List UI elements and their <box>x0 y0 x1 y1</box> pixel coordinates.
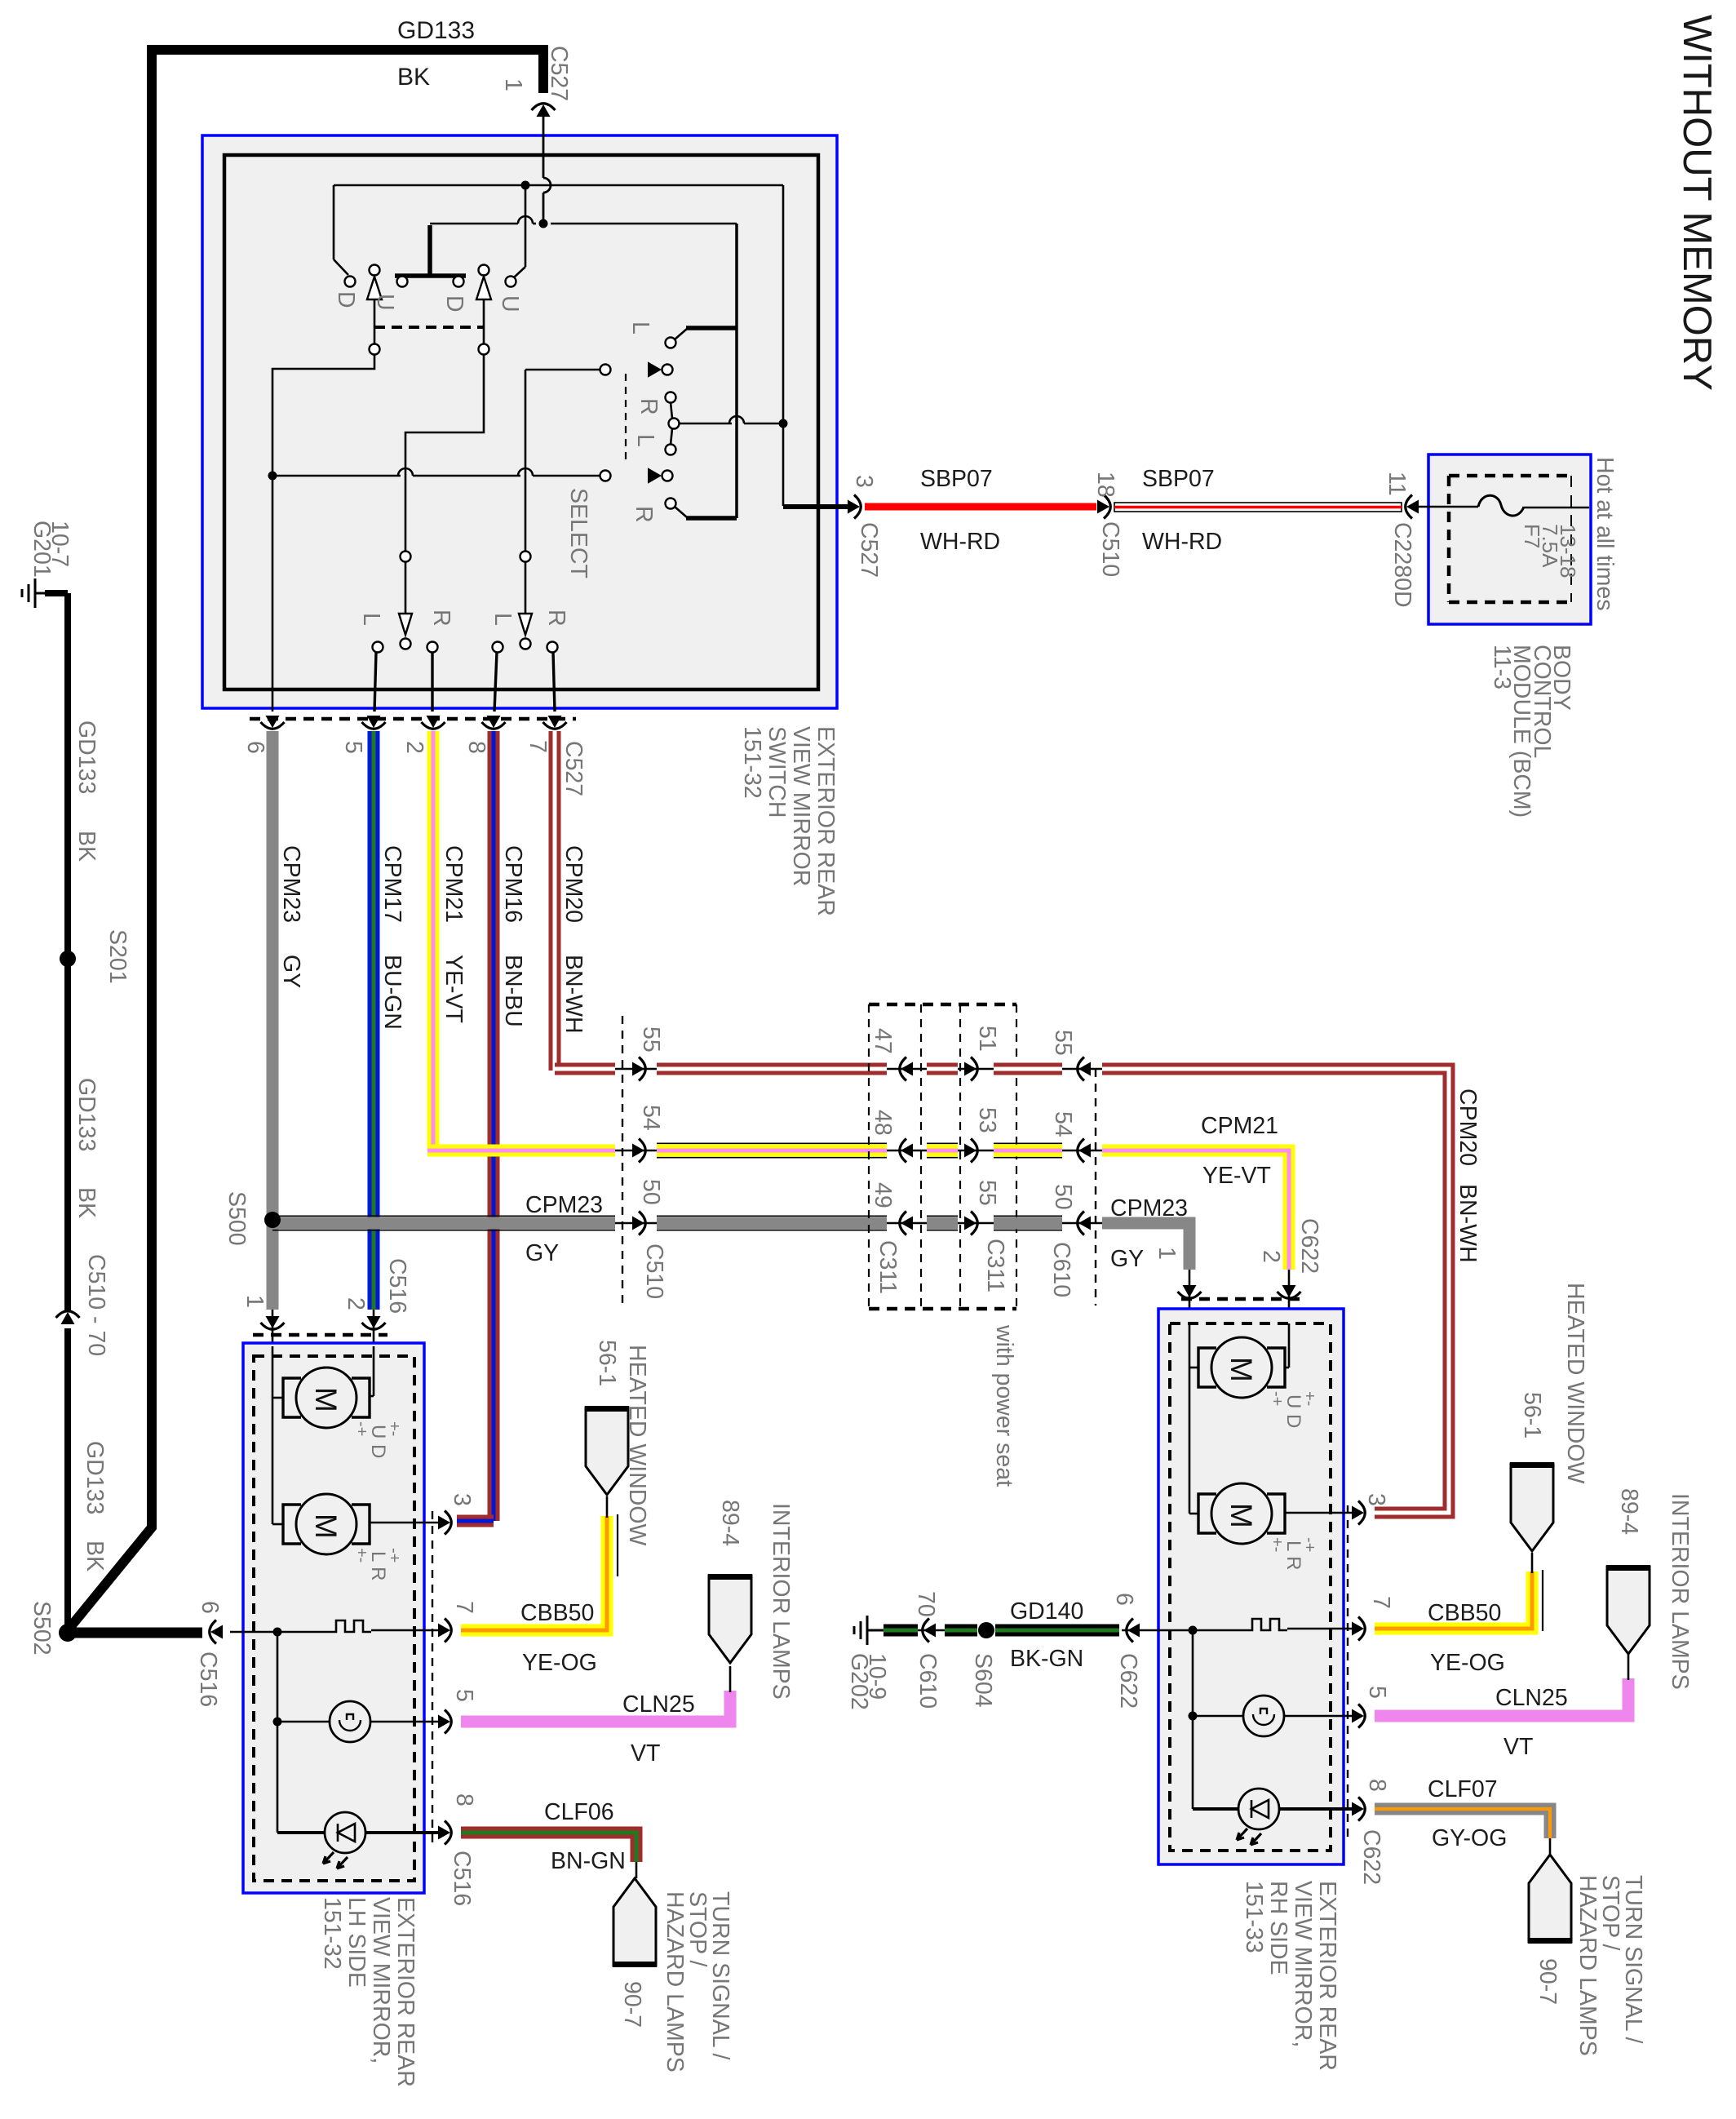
connector C510 pin 18 arrow <box>1097 495 1110 519</box>
label D2 <box>441 295 467 313</box>
label YE-OG RH <box>1430 1650 1505 1676</box>
label CPM23 horiz <box>525 1192 603 1218</box>
label SBP07 2 <box>1142 466 1215 492</box>
wire thick to pin3 C527 <box>783 504 852 509</box>
svg-text:L: L <box>632 434 658 447</box>
svg-text:7: 7 <box>525 740 551 753</box>
label C510 - 70 <box>83 1254 109 1356</box>
svg-text:HAZARD LAMPS: HAZARD LAMPS <box>662 1891 688 2072</box>
wire SBP07 WH-RD segment 2 (white-red) <box>1114 503 1402 512</box>
label INTERIOR LAMPS RH <box>1667 1493 1693 1690</box>
wire CBB50 YE-OG RH <box>1375 1553 1543 1631</box>
svg-text:CPM17: CPM17 <box>379 845 405 923</box>
svg-text:56-1: 56-1 <box>1519 1392 1545 1439</box>
label CBB50 RH <box>1428 1600 1501 1626</box>
wire into BCM <box>1414 507 1589 508</box>
svg-text:C622: C622 <box>1296 1218 1322 1274</box>
svg-text:CPM21: CPM21 <box>1201 1113 1278 1139</box>
svg-text:BU-GN: BU-GN <box>379 955 405 1030</box>
wire CPM20 BN-WH turn to row 55 <box>555 1063 615 1075</box>
label U <box>372 294 398 311</box>
svg-text:18: 18 <box>1092 472 1118 498</box>
svg-text:1: 1 <box>500 78 526 91</box>
label VT LH <box>631 1740 660 1767</box>
pin 8 label LH <box>451 1793 477 1806</box>
select rocker upper input <box>600 363 673 376</box>
mech link dashed <box>374 326 484 329</box>
switch U-D rocker thick bar <box>395 225 466 276</box>
label CBB50 LH <box>520 1600 594 1626</box>
svg-text:HAZARD LAMPS: HAZARD LAMPS <box>1574 1875 1601 2056</box>
label C622 pin6 <box>1115 1653 1141 1709</box>
wire CLN25 VT RH <box>1375 1654 1628 1716</box>
svg-text:1: 1 <box>1154 1247 1180 1260</box>
LH mirror title <box>319 1897 418 2087</box>
label TURN SIGNAL STOP HAZARD LH <box>662 1891 733 2072</box>
C527 pin 8 arrow <box>482 716 506 729</box>
switch bottom contact group 2 <box>519 552 532 649</box>
C527 pin 5 arrow <box>362 716 386 729</box>
row 50 arrow at C510 <box>615 1212 657 1235</box>
svg-text:with power seat: with power seat <box>991 1324 1017 1487</box>
label CPM21 vert <box>441 845 467 923</box>
svg-text:89-4: 89-4 <box>717 1500 743 1546</box>
label C516 left <box>195 1651 221 1707</box>
contact D2 <box>454 277 464 287</box>
label BN-WH vert <box>560 955 587 1034</box>
wire YE-VT row54 mid <box>657 1143 887 1157</box>
svg-text:YE-OG: YE-OG <box>1430 1650 1505 1676</box>
svg-text:CPM16: CPM16 <box>500 845 526 923</box>
RH heater to pin7 <box>1287 1628 1354 1630</box>
RH lamp <box>1193 1696 1354 1736</box>
label GY-OG RH <box>1432 1825 1507 1851</box>
box EXTERIOR REAR VIEW MIRROR LH <box>243 1343 424 1893</box>
contact R1 bottom <box>427 642 438 712</box>
label BN-GN LH <box>551 1848 626 1874</box>
svg-text:S604: S604 <box>970 1653 996 1708</box>
svg-text:5: 5 <box>340 741 366 754</box>
label 55 C510 <box>638 1026 664 1053</box>
LH heater to pin7 <box>371 1629 441 1632</box>
svg-text:151-32: 151-32 <box>319 1897 345 1970</box>
svg-text:RH SIDE: RH SIDE <box>1265 1881 1291 1975</box>
label C622 pin8 <box>1358 1829 1384 1885</box>
label GY vert <box>278 955 304 988</box>
contact mid-left <box>370 344 380 355</box>
label L select <box>627 321 653 335</box>
svg-text:C510: C510 <box>641 1243 667 1299</box>
label C527 right <box>856 522 882 578</box>
RH motor2 wire to pin 3 <box>1284 1512 1354 1514</box>
svg-text:BODY: BODY <box>1548 645 1574 711</box>
svg-text:EXTERIOR REAR: EXTERIOR REAR <box>1314 1881 1340 2071</box>
svg-text:CLN25: CLN25 <box>622 1691 695 1718</box>
label SELECT <box>565 488 591 579</box>
box EXTERIOR REAR VIEW MIRROR RH <box>1158 1309 1344 1864</box>
contact R2 bottom <box>547 642 558 712</box>
svg-text:R: R <box>428 610 454 627</box>
svg-text:CPM23: CPM23 <box>525 1192 603 1218</box>
LH pin7 arrow <box>438 1619 451 1642</box>
wire line A left leg to D contact <box>334 185 348 275</box>
svg-text:L: L <box>489 613 516 626</box>
flag INTERIOR LAMPS RH <box>1606 1567 1650 1654</box>
svg-text:U: U <box>372 294 398 311</box>
svg-text:BK: BK <box>397 64 430 91</box>
connector C527 pin 1 arrow <box>532 104 556 117</box>
label TURN SIGNAL STOP HAZARD RH <box>1574 1875 1646 2056</box>
label 56-1 RH <box>1519 1392 1545 1439</box>
svg-text:10-7: 10-7 <box>46 521 73 567</box>
svg-text:TURN SIGNAL /: TURN SIGNAL / <box>1620 1875 1646 2043</box>
svg-text:C510 - 70: C510 - 70 <box>83 1254 109 1356</box>
svg-text:+-: +- <box>1300 1391 1318 1406</box>
wire to RH turn flag <box>1549 1838 1552 1855</box>
pin 3 label RH <box>1363 1493 1389 1506</box>
svg-text:56-1: 56-1 <box>594 1340 620 1386</box>
svg-text:CBB50: CBB50 <box>1428 1600 1501 1626</box>
svg-text:90-7: 90-7 <box>619 1981 645 2028</box>
svg-text:M: M <box>1224 1503 1258 1528</box>
label BK-GN <box>1010 1646 1083 1672</box>
label BU-GN <box>379 955 405 1030</box>
svg-text:8: 8 <box>1364 1779 1390 1792</box>
svg-text:C527: C527 <box>546 46 572 101</box>
contact U1 <box>397 277 408 287</box>
svg-text:51: 51 <box>974 1026 1000 1052</box>
label LR plus minus RH <box>1268 1537 1318 1570</box>
svg-text:M: M <box>309 1387 343 1412</box>
wire CBB50 YE-OG LH <box>461 1496 618 1630</box>
svg-text:54: 54 <box>1050 1111 1076 1137</box>
LH pin3 arrow <box>438 1511 451 1535</box>
svg-text:6: 6 <box>1111 1593 1137 1606</box>
ground G202 <box>854 1616 883 1645</box>
RH pin7 arrow <box>1352 1617 1365 1641</box>
wire select feed y583 <box>268 468 601 481</box>
svg-text:55: 55 <box>638 1026 664 1053</box>
row 54 YE-VT pins 48/53/54 <box>870 1107 1102 1163</box>
wire CPM16 BN-BU vertical <box>488 731 500 1521</box>
label GD133 <box>397 17 475 44</box>
label CPM20 vert <box>560 845 587 923</box>
label C527 <box>546 46 572 101</box>
C622 dashed line right <box>1347 1505 1348 1840</box>
wire rocker middle to x960 <box>679 416 783 423</box>
label HEATED WINDOW LH <box>624 1345 650 1546</box>
flag TURN SIGNAL RH <box>1528 1855 1572 1942</box>
svg-text:55: 55 <box>974 1180 1000 1206</box>
svg-text:50: 50 <box>1050 1184 1076 1210</box>
svg-text:CPM23: CPM23 <box>1110 1195 1188 1221</box>
svg-text:-+: -+ <box>385 1548 403 1563</box>
RH pin5 arrow <box>1352 1705 1365 1728</box>
switch bottom contact group 1 <box>399 552 412 649</box>
svg-text:C311: C311 <box>982 1239 1008 1292</box>
svg-text:2: 2 <box>343 1297 369 1310</box>
splice S604 <box>978 1622 994 1638</box>
wire CLF07 GY-OG RH <box>1375 1809 1550 1838</box>
svg-text:BK: BK <box>82 1540 108 1572</box>
svg-text:C610: C610 <box>1048 1242 1074 1297</box>
svg-text:C516: C516 <box>449 1851 475 1906</box>
wire G201 to S502 (black) <box>64 593 71 1633</box>
svg-text:CPM20: CPM20 <box>1455 1088 1481 1166</box>
wire GY row50 mid <box>657 1216 887 1230</box>
RH pin3 arrow <box>1352 1501 1365 1525</box>
contact L2 bottom <box>493 642 503 712</box>
label S502 <box>29 1601 55 1656</box>
label CPM23 vert <box>278 845 304 923</box>
svg-text:+-: +- <box>385 1421 403 1436</box>
svg-text:HEATED WINDOW: HEATED WINDOW <box>624 1345 650 1546</box>
label 89-4 LH <box>717 1500 743 1546</box>
wire CPM21 YE-VT turn to row 54 <box>427 1145 615 1157</box>
label UD plus minus RH <box>1268 1391 1318 1428</box>
label GY right <box>1110 1246 1144 1272</box>
label S500 <box>224 1191 250 1246</box>
label CPM16 <box>500 845 526 923</box>
label C510 <box>1097 521 1123 577</box>
motor M1 LH (U/D) <box>283 1368 370 1428</box>
svg-text:GD133: GD133 <box>73 1078 100 1151</box>
svg-text:70: 70 <box>913 1591 939 1617</box>
flag HEATED WINDOW LH <box>585 1407 629 1495</box>
label R bottom2 <box>543 610 569 627</box>
actuator arrow up right <box>476 265 491 345</box>
select R thick stub <box>686 516 737 521</box>
svg-text:VT: VT <box>1503 1734 1533 1760</box>
svg-text:S502: S502 <box>29 1601 55 1656</box>
label YE-VT right <box>1202 1163 1271 1189</box>
svg-text:50: 50 <box>638 1179 664 1205</box>
select rocker lower input <box>600 469 673 482</box>
RH heater feed wire <box>1146 1626 1244 1635</box>
wire line B y274 <box>430 216 737 224</box>
label L bottom2 <box>489 613 516 626</box>
svg-text:GD133: GD133 <box>397 17 475 44</box>
pin 1 label <box>500 78 526 91</box>
label GD133 BK lower <box>82 1441 108 1572</box>
svg-text:CLN25: CLN25 <box>1495 1685 1568 1711</box>
svg-text:CBB50: CBB50 <box>520 1600 594 1626</box>
svg-text:7: 7 <box>1368 1596 1394 1609</box>
row 54 arrow at C510 <box>615 1139 657 1163</box>
svg-text:YE-VT: YE-VT <box>1202 1163 1271 1189</box>
svg-text:R: R <box>543 610 569 627</box>
LH mirror dashed box <box>254 1356 414 1881</box>
svg-text:GD140: GD140 <box>1010 1598 1083 1625</box>
svg-text:INTERIOR LAMPS: INTERIOR LAMPS <box>768 1503 794 1700</box>
wire BN-BU turn into pin3 <box>457 1515 494 1527</box>
RH pin1 wire to motors common <box>1189 1323 1198 1514</box>
RH mirror dashed box <box>1170 1323 1331 1851</box>
svg-text:HEATED WINDOW: HEATED WINDOW <box>1562 1283 1588 1484</box>
fuse label F7 7.5A 13-18 <box>1520 524 1580 579</box>
contact D1 <box>345 277 356 287</box>
box BODY CONTROL MODULE (BCM) <box>1428 454 1591 624</box>
svg-text:GY: GY <box>1110 1246 1144 1272</box>
wire x644 lower riser <box>525 370 600 552</box>
pin 8 label RH <box>1364 1779 1390 1792</box>
label YE-VT vert <box>441 955 467 1023</box>
RH pin8 arrow <box>1352 1798 1365 1821</box>
svg-text:3: 3 <box>1363 1493 1389 1506</box>
RH lamp common wire <box>1189 1630 1198 1809</box>
label R bottom1 <box>428 610 454 627</box>
select dashed link <box>625 374 627 463</box>
svg-text:55: 55 <box>1050 1030 1076 1056</box>
svg-text:5: 5 <box>451 1689 477 1702</box>
switch title EXTERIOR REAR VIEW MIRROR SWITCH 151-32 <box>739 726 839 916</box>
label BK <box>397 64 430 91</box>
pin 5 label RH <box>1364 1686 1390 1699</box>
wire GD140 BK-GN segment c <box>995 1625 1119 1637</box>
svg-text:STOP /: STOP / <box>1597 1875 1623 1950</box>
connector C610-70 arrow <box>918 1619 945 1642</box>
svg-text:CPM23: CPM23 <box>278 845 304 923</box>
splice S500 <box>264 1212 281 1228</box>
motor M2 RH (L/R) <box>1198 1483 1285 1544</box>
svg-text:SBP07: SBP07 <box>920 466 993 492</box>
label GD140 <box>1010 1598 1083 1625</box>
label YE-OG LH <box>522 1650 597 1676</box>
pin 7 label RH <box>1368 1596 1394 1609</box>
svg-text:M: M <box>309 1514 343 1539</box>
svg-text:3: 3 <box>851 475 877 488</box>
power seat internal dashed 1 <box>920 1004 922 1309</box>
LH pin8 arrow <box>438 1821 451 1845</box>
connector C527 dashed line <box>250 717 576 721</box>
svg-text:1: 1 <box>241 1295 268 1308</box>
label 56-1 LH <box>594 1340 620 1386</box>
wire to LH turn flag <box>635 1862 638 1878</box>
label G202 10-9 <box>846 1653 890 1710</box>
LH motor2 wire to pin 3 <box>369 1522 441 1524</box>
pin2 label <box>343 1297 369 1310</box>
label 54 C510 <box>638 1105 664 1131</box>
label U2 <box>497 295 523 313</box>
wire CLN25 VT LH <box>461 1666 730 1722</box>
wire x644 upper (U lever riser) <box>514 185 525 277</box>
label LR plus minus LH <box>352 1548 403 1580</box>
label R rocker <box>635 398 662 415</box>
connector C516 pins 1 2 arrows <box>261 1310 386 1346</box>
svg-text:C622: C622 <box>1115 1653 1141 1709</box>
wire line A y227 <box>334 181 783 190</box>
flag INTERIOR LAMPS LH <box>708 1576 752 1663</box>
wire CPM23 GY vertical <box>267 731 279 1310</box>
svg-text:90-7: 90-7 <box>1534 1958 1561 2005</box>
svg-text:S500: S500 <box>224 1191 250 1246</box>
label WH-RD 1 <box>920 529 1000 555</box>
flag HEATED WINDOW RH <box>1510 1464 1554 1551</box>
wire CPM17 BU-GN vertical <box>368 731 380 1310</box>
connector C622 pins 1 2 arrows <box>1178 1270 1301 1323</box>
label C527 bottom <box>560 741 587 796</box>
LH LED <box>277 1812 441 1869</box>
wire BK-GN segment a <box>883 1625 918 1637</box>
row 55 BN-WH through C311/C311/C610 pins 47/51/55 <box>870 1026 1102 1081</box>
label C622 top <box>1296 1218 1322 1274</box>
svg-text:BK: BK <box>73 831 100 862</box>
svg-text:YE-VT: YE-VT <box>441 955 467 1023</box>
LH pin1 wire to motors common <box>272 1346 282 1524</box>
svg-text:C622: C622 <box>1358 1829 1384 1885</box>
C622 dashed line top <box>1181 1297 1305 1301</box>
svg-text:CPM21: CPM21 <box>441 845 467 923</box>
svg-text:8: 8 <box>451 1793 477 1806</box>
C516 dashed line top <box>253 1333 387 1337</box>
label CPM17 <box>379 845 405 923</box>
label C510 vertical <box>641 1243 667 1299</box>
pin6 label left <box>197 1601 223 1614</box>
wire x960 vertical to pin 3 <box>779 185 788 506</box>
wire pin1 into switch <box>542 111 545 222</box>
wire BK-GN segment b <box>945 1625 977 1637</box>
wire GD133 BK ground feed (thick black) <box>68 50 543 1630</box>
C622 pin6 arrow <box>1122 1619 1146 1642</box>
svg-text:BN-WH: BN-WH <box>560 955 587 1034</box>
pin 7 label LH <box>451 1601 477 1614</box>
label BN-BU <box>500 955 526 1027</box>
label VT RH <box>1503 1734 1533 1760</box>
select L thick stub <box>686 326 737 330</box>
label 89-4 RH <box>1616 1488 1642 1535</box>
RH heater resistor <box>1244 1619 1287 1630</box>
wire CLF06 BN-GN LH <box>461 1833 636 1862</box>
RH mirror title <box>1241 1881 1340 2071</box>
svg-text:WH-RD: WH-RD <box>1142 529 1222 555</box>
svg-text:SWITCH: SWITCH <box>764 726 790 818</box>
svg-text:2: 2 <box>1258 1250 1284 1263</box>
svg-text:48: 48 <box>870 1110 896 1136</box>
wire BN-WH to right and down to RH pin3 <box>1102 1069 1449 1513</box>
svg-text:BN-WH: BN-WH <box>1455 1184 1481 1263</box>
contact select L top <box>666 329 688 348</box>
wire GY to right and down to C622 pin1 <box>1102 1223 1189 1270</box>
wire mid-left to left rail <box>272 354 374 712</box>
connector C510-70 arrow <box>56 1311 80 1324</box>
pin2 label RH <box>1258 1250 1284 1263</box>
svg-text:GY: GY <box>525 1240 559 1266</box>
pin 3 label <box>851 475 877 488</box>
label 70 <box>913 1591 939 1617</box>
label BODY CONTROL MODULE (BCM) 11-3 <box>1489 645 1574 818</box>
svg-text:BN-GN: BN-GN <box>551 1848 626 1874</box>
svg-text:C527: C527 <box>856 522 882 578</box>
contact select R bottom <box>666 499 688 518</box>
pin 3 C527 arrow <box>848 495 861 519</box>
svg-text:8: 8 <box>463 741 489 754</box>
LH heater resistor <box>328 1620 371 1632</box>
svg-text:R: R <box>635 398 662 415</box>
motor M1 RH (U/D) <box>1198 1337 1285 1398</box>
svg-text:-+: -+ <box>1300 1537 1318 1552</box>
svg-text:Hot at all times: Hot at all times <box>1592 457 1618 610</box>
svg-text:2: 2 <box>401 741 427 754</box>
pin 11 label <box>1384 472 1410 496</box>
svg-text:GY: GY <box>278 955 304 988</box>
svg-text:YE-OG: YE-OG <box>522 1650 597 1676</box>
power seat internal dashed 2 <box>959 1004 961 1309</box>
svg-text:CPM20: CPM20 <box>560 845 587 923</box>
wire S502 to C516 pin 6 <box>75 1628 202 1638</box>
box EXTERIOR REAR VIEW MIRROR SWITCH <box>202 135 837 708</box>
svg-text:WH-RD: WH-RD <box>920 529 1000 555</box>
label BN-WH right <box>1455 1184 1481 1263</box>
